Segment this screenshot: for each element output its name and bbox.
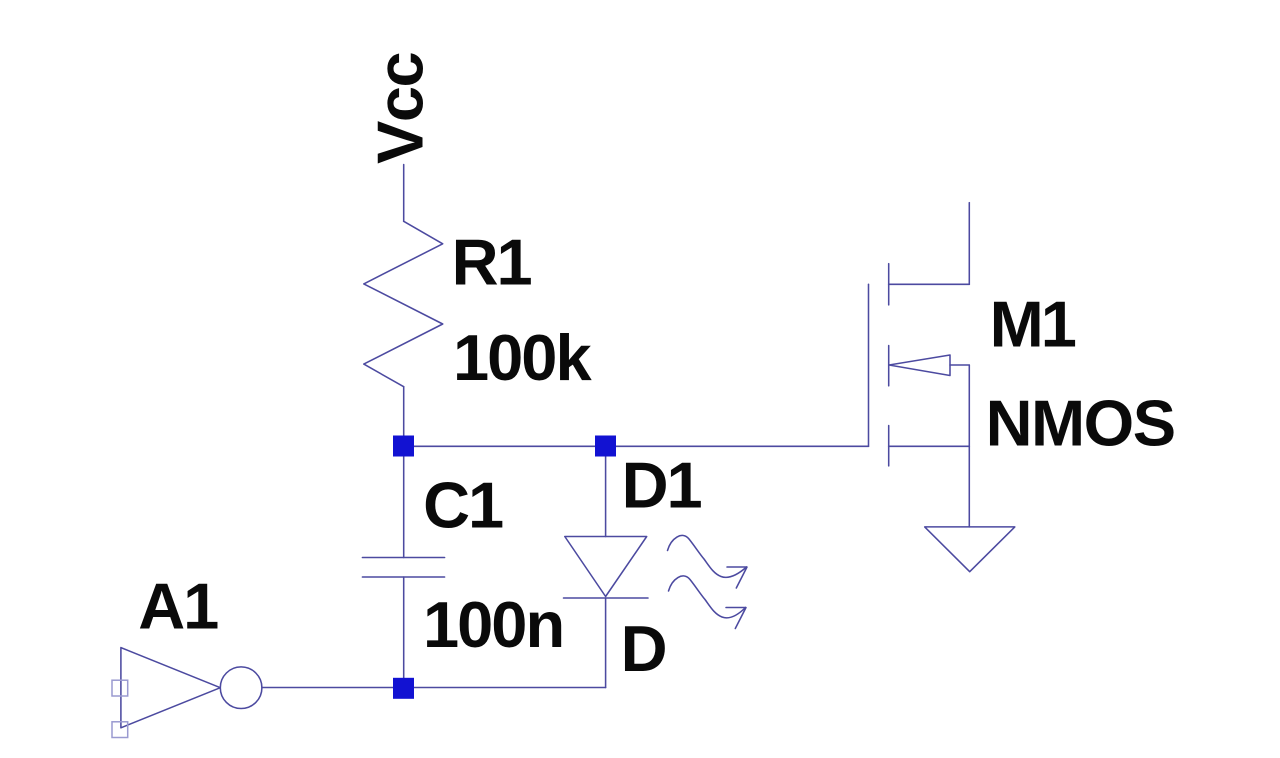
nmos M1 drain stub: [968, 203, 970, 285]
pin square upper A1: [112, 680, 128, 696]
wire node2 to D1: [605, 446, 607, 536]
ground: [925, 527, 1015, 572]
LED D1: [565, 537, 647, 597]
nmos M1 channel top: [888, 264, 890, 305]
junction node3: [393, 678, 414, 699]
nmos M1 channel mid: [888, 346, 890, 386]
svg-text:M1: M1: [990, 287, 1076, 360]
junction node1: [393, 436, 414, 457]
LED light arrow 1: [668, 535, 747, 577]
pin square lower A1: [112, 722, 128, 738]
svg-text:D1: D1: [622, 449, 702, 522]
LED light arrow 2: [669, 576, 746, 618]
svg-text:100k: 100k: [453, 321, 592, 394]
wire R1 to node1: [403, 387, 405, 447]
buffer A1 bubble: [220, 667, 262, 709]
svg-text:Vcc: Vcc: [364, 52, 437, 164]
svg-text:100n: 100n: [423, 588, 563, 661]
wire node1 to C1: [403, 446, 405, 557]
nmos M1 bulk arrow: [889, 355, 950, 376]
wire C1 to bottom rail: [403, 577, 405, 688]
svg-text:C1: C1: [423, 469, 503, 542]
resistor R1: [364, 221, 443, 386]
buffer A1 triangle: [121, 648, 220, 728]
capacitor C1: [362, 557, 444, 559]
svg-text:NMOS: NMOS: [986, 386, 1175, 459]
wire A1 output to node3: [262, 687, 606, 689]
wire Vcc stub: [403, 165, 405, 222]
nmos M1 channel bottom: [888, 426, 890, 466]
nmos M1 gate line: [868, 284, 870, 446]
svg-text:D: D: [621, 612, 668, 685]
wire node1 to gate: [404, 445, 869, 447]
svg-text:A1: A1: [138, 570, 218, 643]
svg-text:R1: R1: [452, 226, 532, 299]
wire D1 to bottom rail: [605, 598, 607, 688]
nmos M1 drain contact: [889, 283, 970, 285]
nmos M1 source vertical: [968, 365, 970, 527]
junction node2: [595, 436, 616, 457]
nmos M1 source contact: [889, 445, 970, 447]
